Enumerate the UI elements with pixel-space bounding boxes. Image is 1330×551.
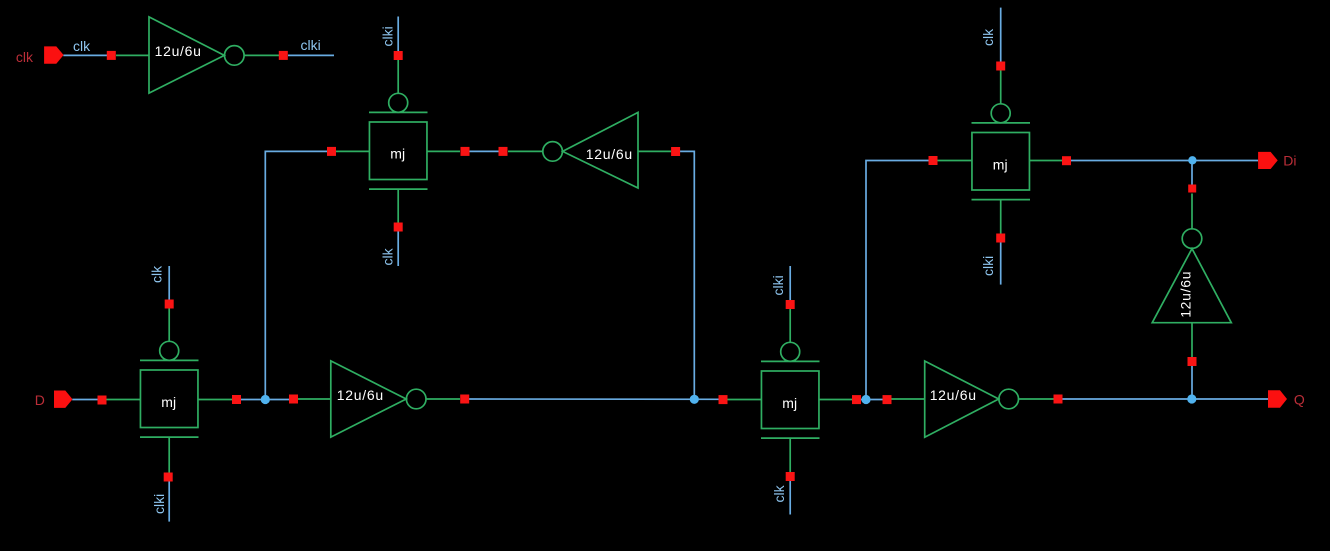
svg-text:mj: mj [161,394,176,410]
svg-text:clki: clki [151,494,167,514]
svg-text:clki: clki [770,275,786,295]
svg-text:mj: mj [782,395,797,411]
svg-text:clki: clki [380,26,396,46]
svg-text:12u/6u: 12u/6u [155,43,202,59]
svg-text:clk: clk [149,265,165,283]
svg-text:D: D [35,392,45,408]
svg-text:clk: clk [73,38,91,54]
svg-text:clk: clk [380,247,396,265]
svg-text:12u/6u: 12u/6u [930,387,977,403]
svg-text:12u/6u: 12u/6u [586,146,633,162]
svg-text:clk: clk [980,28,996,46]
svg-text:12u/6u: 12u/6u [337,387,384,403]
svg-text:clk: clk [771,484,787,502]
svg-text:12u/6u: 12u/6u [1178,271,1194,318]
svg-text:clk: clk [16,49,34,65]
svg-text:clki: clki [980,256,996,276]
svg-text:Di: Di [1283,152,1296,168]
svg-text:clki: clki [301,37,321,53]
svg-text:mj: mj [993,157,1008,173]
svg-text:mj: mj [390,146,405,162]
svg-text:Q: Q [1294,391,1305,407]
